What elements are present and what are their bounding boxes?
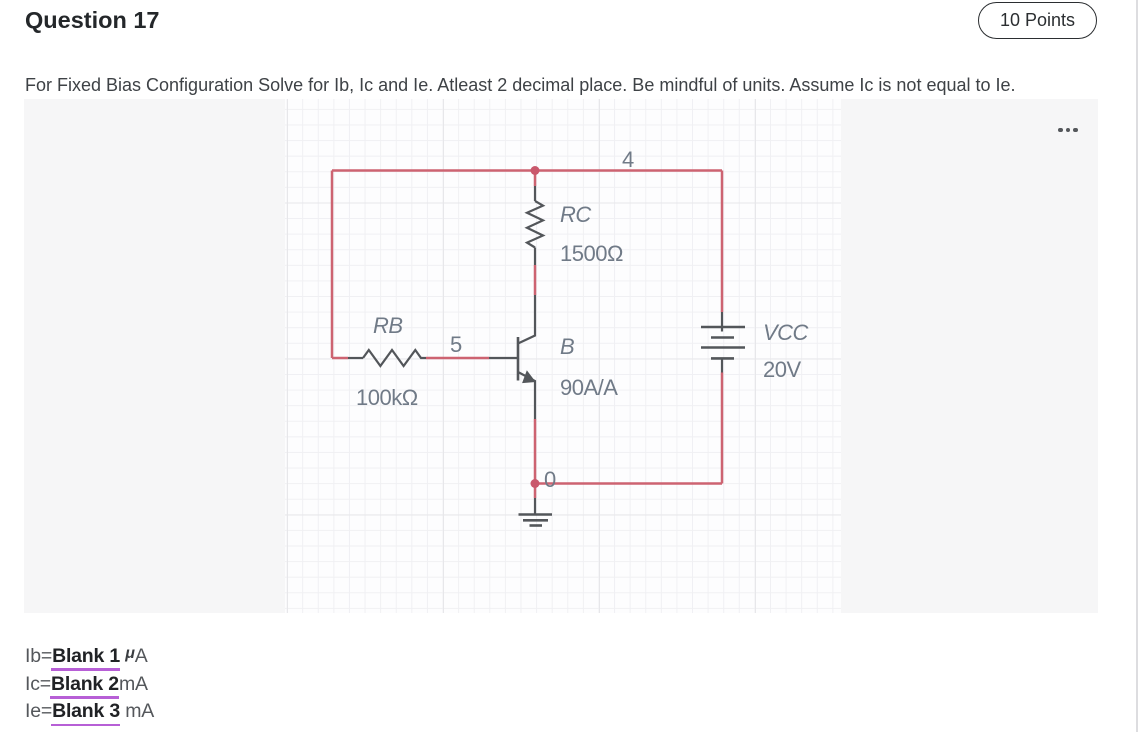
- svg-text:5: 5: [450, 332, 462, 357]
- svg-text:4: 4: [622, 147, 634, 172]
- svg-text:RB: RB: [373, 313, 403, 338]
- svg-text:0: 0: [544, 467, 556, 492]
- svg-text:RC: RC: [560, 202, 591, 227]
- svg-text:1500Ω: 1500Ω: [560, 241, 623, 266]
- svg-text:20V: 20V: [763, 357, 801, 382]
- svg-text:90A/A: 90A/A: [560, 375, 618, 400]
- svg-text:100kΩ: 100kΩ: [356, 385, 418, 410]
- svg-text:B: B: [560, 334, 574, 359]
- svg-text:VCC: VCC: [763, 320, 809, 345]
